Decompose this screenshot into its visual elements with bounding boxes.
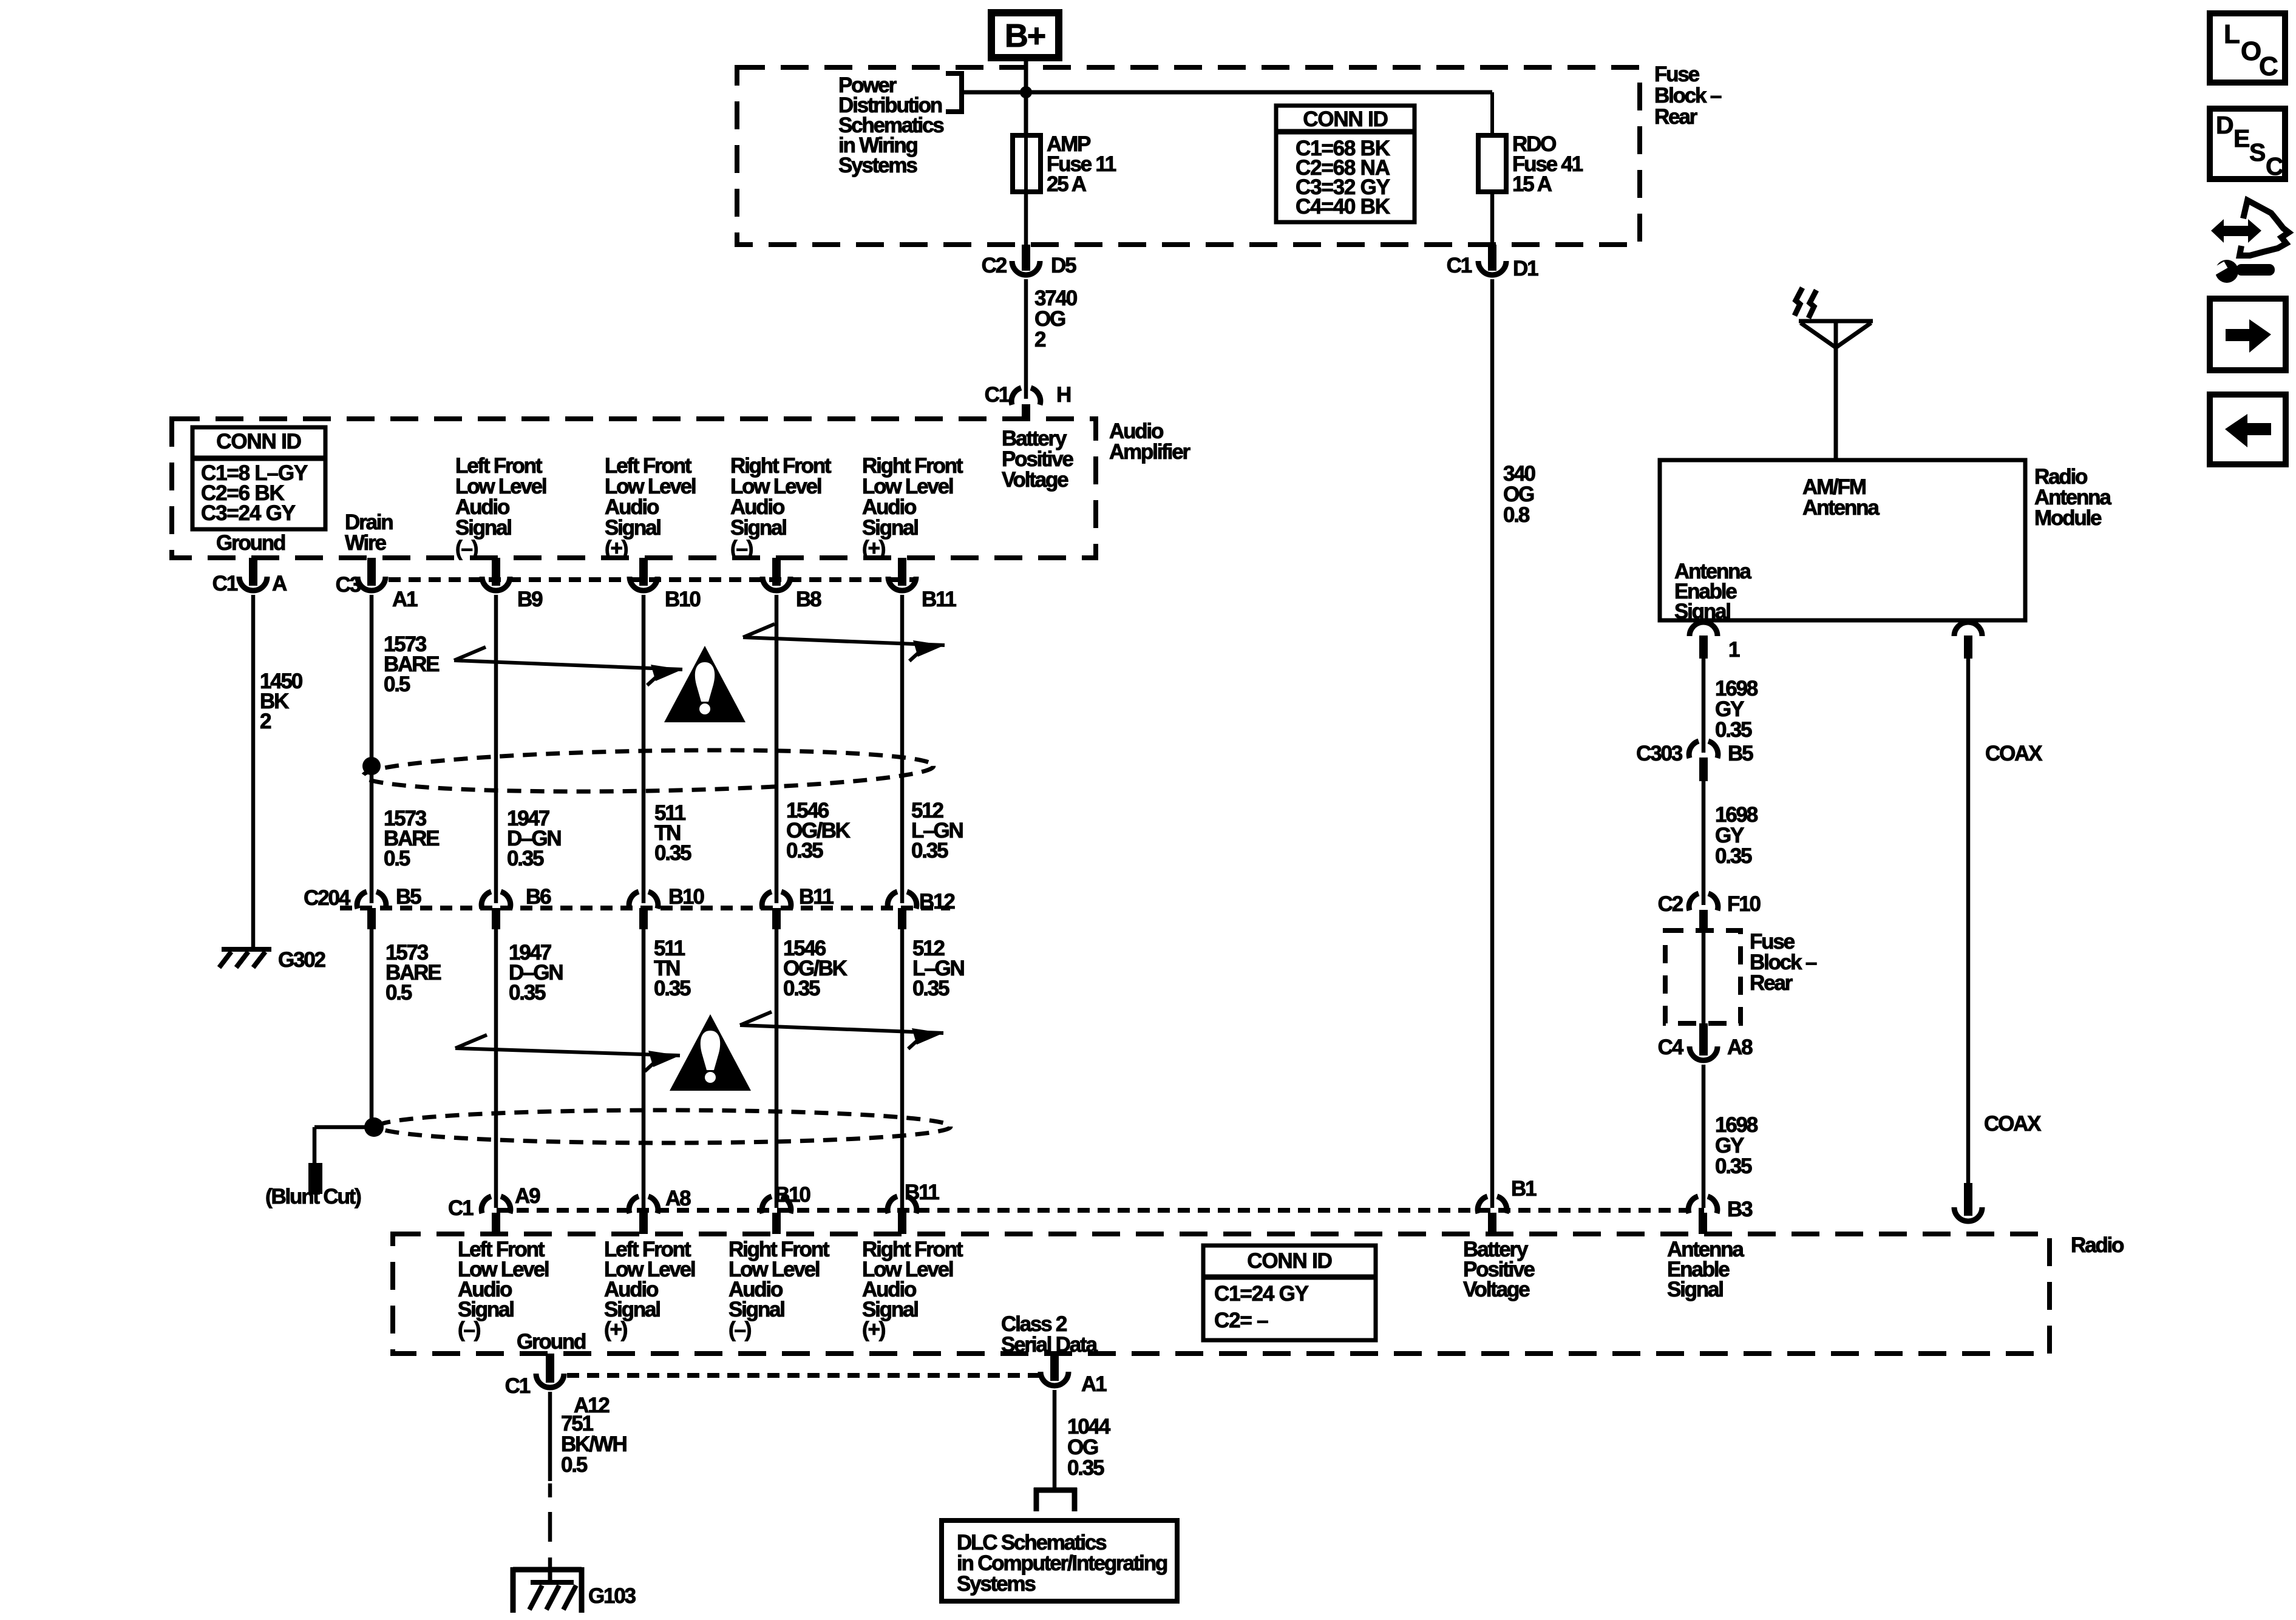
svg-text:512L–GN0.35: 512L–GN0.35 [912, 937, 964, 1000]
svg-text:B9: B9 [517, 588, 543, 611]
svg-text:C1: C1 [505, 1374, 531, 1398]
connector C2 / D5 [982, 245, 1076, 277]
wire right front + lower [900, 929, 905, 1208]
wire B+ feed down [1024, 58, 1028, 135]
svg-text:DrainWire: DrainWire [345, 510, 393, 555]
svg-text:B1: B1 [1511, 1177, 1537, 1201]
coax connector at radio [1954, 1183, 1982, 1221]
svg-text:Left FrontLow LevelAudioSignal: Left FrontLow LevelAudioSignal(+) [604, 1238, 695, 1341]
wire to blunt cut [314, 1127, 374, 1163]
svg-text:AM/FMAntenna: AM/FMAntenna [1802, 475, 1880, 520]
svg-text:Right FrontLow LevelAudioSigna: Right FrontLow LevelAudioSignal(–) [730, 454, 832, 560]
svg-text:Ground: Ground [216, 531, 285, 555]
fuse block rear small dashed box [1665, 930, 1741, 1023]
svg-text:C: C [2259, 52, 2278, 81]
connector C303 / B5 [1636, 741, 1753, 781]
svg-text:AntennaEnableSignal: AntennaEnableSignal [1674, 560, 1751, 623]
svg-text:C: C [2266, 152, 2283, 180]
svg-text:Left FrontLow LevelAudioSignal: Left FrontLow LevelAudioSignal(+) [605, 454, 696, 560]
connectors radio top row [481, 1196, 511, 1234]
fuse RDO Fuse 41 15 A [1478, 135, 1506, 192]
icon arrow right [2210, 299, 2286, 370]
twisted pair ellipse 2 [378, 1110, 951, 1143]
svg-text:AudioAmplifier: AudioAmplifier [1109, 419, 1190, 464]
connector C1 / D1 [1447, 245, 1538, 280]
radio connector row dashed line [497, 1208, 1704, 1213]
svg-text:B10: B10 [775, 1183, 810, 1207]
svg-text:Radio: Radio [2071, 1233, 2124, 1257]
DLC Schematics reference box [942, 1520, 1177, 1601]
coax wire [1966, 659, 1971, 1183]
svg-text:1698GY0.35: 1698GY0.35 [1715, 803, 1758, 868]
svg-text:G103: G103 [588, 1584, 636, 1608]
svg-text:A9: A9 [515, 1184, 540, 1208]
svg-text:1573BARE0.5: 1573BARE0.5 [384, 807, 439, 870]
svg-text:FuseBlock –Rear: FuseBlock –Rear [1750, 930, 1817, 995]
svg-text:D5: D5 [1051, 254, 1076, 277]
svg-text:O: O [2241, 36, 2261, 66]
wire right front + upper [900, 595, 905, 903]
blunt cut terminal [308, 1163, 322, 1194]
junction dot on drain wire [362, 757, 381, 775]
svg-text:C1: C1 [985, 383, 1010, 407]
svg-text:AntennaEnableSignal: AntennaEnableSignal [1667, 1238, 1744, 1301]
svg-text:BatteryPositiveVoltage: BatteryPositiveVoltage [1002, 427, 1073, 492]
svg-text:COAX: COAX [1985, 742, 2043, 765]
wire feed to RDO fuse [1026, 90, 1492, 95]
radio dashed box [393, 1234, 2050, 1354]
icon hand with wrench [2211, 200, 2289, 283]
wire 751 BK/WH 0.5 [548, 1392, 552, 1481]
warning triangle 1 [664, 646, 746, 722]
icon LOC [2210, 13, 2285, 83]
CONN ID table (radio) [1203, 1246, 1376, 1340]
svg-text:FuseBlock –Rear: FuseBlock –Rear [1654, 63, 1722, 129]
antenna wave marks [1795, 288, 1816, 318]
svg-text:A: A [272, 572, 287, 595]
wire RDO fuse to C1 [1490, 192, 1495, 245]
svg-text:COAX: COAX [1984, 1112, 2042, 1136]
svg-text:B+: B+ [1005, 18, 1045, 54]
svg-text:B5: B5 [396, 885, 421, 909]
wire left front - lower [494, 929, 498, 1208]
off-page bracket to DLC [1034, 1488, 1077, 1511]
svg-text:3740OG2: 3740OG2 [1034, 286, 1078, 351]
svg-text:1698GY0.35: 1698GY0.35 [1715, 1113, 1758, 1178]
junction dot [1020, 86, 1032, 98]
svg-text:C4: C4 [1658, 1035, 1684, 1059]
wire right front - upper [775, 595, 779, 903]
wire 3740 OG 2 [1024, 279, 1028, 399]
svg-text:RadioAntennaModule: RadioAntennaModule [2034, 465, 2111, 530]
wire drain upper [370, 595, 374, 903]
node B+ battery positive terminal [991, 13, 1059, 58]
connector pin 1 (module) [1690, 622, 1740, 662]
svg-text:B11: B11 [905, 1181, 939, 1204]
wire 340 OG 0.8 (down to B1) [1490, 279, 1495, 1208]
svg-text:Ground: Ground [517, 1330, 586, 1354]
wire 1044 OG 0.35 [1053, 1390, 1057, 1488]
svg-text:B8: B8 [796, 588, 821, 611]
wire 1698 GY 0.35 (1) [1702, 659, 1706, 753]
twisted pair arrow lower-right [740, 1012, 943, 1049]
svg-text:B3: B3 [1727, 1198, 1753, 1221]
coax connector at module [1954, 622, 1982, 659]
svg-text:1947D–GN0.35: 1947D–GN0.35 [509, 941, 562, 1005]
svg-text:1: 1 [1728, 638, 1740, 662]
connector C2 / F10 [1658, 892, 1761, 930]
svg-text:A1: A1 [1081, 1372, 1107, 1396]
wire through fuse block [1702, 930, 1706, 1023]
warning triangle 2 [670, 1014, 751, 1091]
CONN ID table (fuse block) [1276, 106, 1415, 222]
svg-text:E: E [2233, 124, 2249, 152]
svg-text:D: D [2216, 111, 2233, 139]
AM/FM antenna module box [1660, 460, 2025, 620]
connector C1 / A12 (radio ground) [505, 1354, 610, 1417]
twisted pair arrow upper-left [454, 647, 682, 685]
wire right front - lower [775, 929, 779, 1208]
svg-text:511TN0.35: 511TN0.35 [654, 937, 691, 1000]
svg-text:B10: B10 [665, 588, 701, 611]
connector C1 / H [985, 383, 1070, 419]
svg-text:1947D–GN0.35: 1947D–GN0.35 [507, 807, 560, 870]
svg-text:A8: A8 [1727, 1035, 1753, 1059]
radio bottom connector dashed line [567, 1373, 1039, 1378]
svg-text:CONN ID: CONN ID [1247, 1249, 1331, 1273]
svg-text:1450BK2: 1450BK2 [260, 669, 303, 733]
svg-text:1573BARE0.5: 1573BARE0.5 [384, 632, 439, 696]
wire 1698 GY 0.35 (2) [1702, 781, 1706, 905]
fuse block rear dashed box [737, 67, 1640, 245]
antenna symbol [1799, 320, 1873, 460]
ground G302 [219, 949, 271, 968]
svg-text:511TN0.35: 511TN0.35 [654, 801, 691, 865]
svg-text:B11: B11 [799, 885, 834, 909]
svg-text:B5: B5 [1728, 742, 1753, 765]
svg-text:1044OG0.35: 1044OG0.35 [1067, 1415, 1111, 1480]
svg-text:C1: C1 [1447, 254, 1472, 277]
svg-text:B11: B11 [922, 588, 956, 611]
junction dot blunt cut [364, 1117, 384, 1137]
bracket from Power Distribution label [946, 71, 1027, 114]
wire left front + upper [642, 595, 646, 903]
svg-text:751BK/WH0.5: 751BK/WH0.5 [561, 1412, 627, 1477]
svg-text:Left FrontLow LevelAudioSignal: Left FrontLow LevelAudioSignal(–) [455, 454, 546, 560]
wire AMP fuse to C2 [1024, 192, 1028, 245]
svg-text:D1: D1 [1513, 257, 1538, 280]
svg-text:(Blunt Cut): (Blunt Cut) [265, 1185, 361, 1208]
svg-text:C204: C204 [304, 886, 351, 910]
svg-text:1573BARE0.5: 1573BARE0.5 [385, 941, 441, 1005]
svg-text:L: L [2224, 19, 2240, 49]
svg-text:A8: A8 [665, 1187, 691, 1210]
connector row C204 dashed line [340, 906, 950, 910]
svg-text:PowerDistributionSchematicsin: PowerDistributionSchematicsin WiringSyst… [838, 73, 944, 177]
wire 1698 GY 0.35 (3) [1702, 1065, 1706, 1208]
wire left front + lower [642, 929, 646, 1208]
svg-text:C1: C1 [448, 1196, 474, 1220]
svg-text:1546OG/BK0.35: 1546OG/BK0.35 [786, 799, 851, 863]
svg-text:Right FrontLow LevelAudioSigna: Right FrontLow LevelAudioSignal(+) [862, 454, 963, 560]
twisted pair ellipse 1 [362, 746, 934, 796]
CONN ID table (amplifier) [192, 427, 325, 529]
svg-text:S: S [2249, 138, 2265, 166]
svg-text:340OG0.8: 340OG0.8 [1503, 462, 1536, 527]
twisted pair arrow upper-right [743, 624, 945, 661]
wire down to RDO fuse [1490, 92, 1494, 135]
svg-text:F10: F10 [1727, 892, 1761, 916]
svg-text:BatteryPositiveVoltage: BatteryPositiveVoltage [1463, 1238, 1535, 1301]
svg-text:C2: C2 [982, 254, 1007, 277]
svg-text:1698GY0.35: 1698GY0.35 [1715, 677, 1758, 742]
ground G103 [513, 1567, 582, 1613]
svg-text:Right FrontLow LevelAudioSigna: Right FrontLow LevelAudioSignal(–) [729, 1238, 830, 1341]
connectors amplifier bottom row [239, 558, 267, 591]
svg-text:C3: C3 [336, 573, 361, 597]
icon arrow left [2210, 395, 2286, 464]
svg-text:512L–GN0.35: 512L–GN0.35 [911, 799, 963, 863]
svg-text:B12: B12 [919, 890, 955, 913]
twisted pair arrow lower-left [455, 1035, 680, 1071]
svg-text:CONN ID: CONN ID [1303, 107, 1387, 131]
svg-text:A1: A1 [392, 588, 418, 611]
svg-text:Right FrontLow LevelAudioSigna: Right FrontLow LevelAudioSignal(+) [862, 1238, 963, 1341]
dashed wire to G103 [548, 1483, 552, 1570]
svg-text:C1: C1 [212, 572, 238, 595]
svg-text:AMPFuse 1125 A: AMPFuse 1125 A [1047, 132, 1116, 196]
svg-text:1546OG/BK0.35: 1546OG/BK0.35 [783, 937, 847, 1000]
svg-text:B10: B10 [668, 885, 704, 909]
svg-text:Class 2Serial Data: Class 2Serial Data [1001, 1312, 1098, 1357]
svg-text:G302: G302 [278, 948, 326, 972]
icon DESC [2210, 109, 2285, 180]
svg-text:CONN ID: CONN ID [216, 430, 301, 453]
svg-text:C1=68 BKC2=68 NAC3=32 GYC4=40: C1=68 BKC2=68 NAC3=32 GYC4=40 BK [1296, 137, 1390, 219]
svg-text:B6: B6 [526, 885, 551, 909]
svg-text:H: H [1056, 383, 1070, 407]
connector C4 / A8 [1658, 1023, 1753, 1060]
svg-text:C303: C303 [1636, 742, 1683, 765]
amplifier connector row dashed line [389, 577, 918, 582]
svg-text:Left FrontLow LevelAudioSignal: Left FrontLow LevelAudioSignal(–) [458, 1238, 549, 1341]
connectors C204 row [357, 892, 386, 929]
fuse AMP Fuse 11 25 A [1013, 135, 1041, 192]
wire left front - upper [494, 595, 498, 903]
connector A1 (class 2 serial data) [1041, 1354, 1107, 1396]
svg-text:RDOFuse 4115 A: RDOFuse 4115 A [1512, 132, 1583, 196]
svg-text:C2: C2 [1658, 892, 1683, 916]
audio amplifier dashed box [172, 419, 1096, 558]
wire drain lower [370, 929, 374, 1127]
wire ground 1450 BK 2 [251, 595, 256, 948]
